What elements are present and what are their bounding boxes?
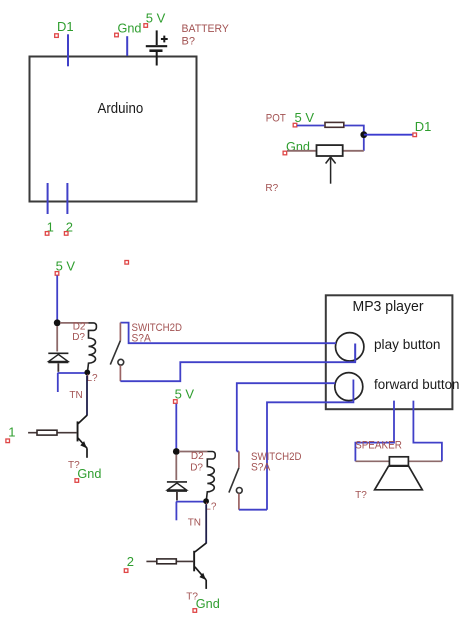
wire resistor to junction	[344, 126, 363, 135]
svg-text:TN: TN	[188, 518, 201, 529]
node 5V label (battery)	[144, 10, 166, 27]
wire 5V to resistor R?	[297, 125, 324, 127]
svg-text:Gnd: Gnd	[77, 466, 101, 481]
svg-text:TN: TN	[69, 390, 82, 401]
svg-text:5 V: 5 V	[146, 10, 166, 25]
relay coil labels D2 D? (block1)	[72, 321, 86, 343]
battery B?	[146, 30, 168, 65]
wire pot wiper branch to junction	[363, 135, 365, 151]
junction coil bottom (block1)	[84, 370, 90, 376]
svg-text:D?: D?	[190, 463, 203, 474]
play button label	[374, 337, 441, 352]
wire diode to coil bottom (block2)	[176, 492, 206, 502]
relay coil TN (block1)	[60, 323, 96, 371]
switch S?A pin bottom (block1)	[119, 365, 121, 381]
speaker wire right (MP3 out)	[413, 401, 442, 462]
switch S?A pin top (block2)	[238, 451, 240, 467]
svg-text:Gnd: Gnd	[196, 596, 220, 611]
potentiometer R? body	[317, 145, 343, 156]
wire switch1 bottom to play button pin2	[120, 344, 355, 382]
switch S?A pin bottom (block2)	[238, 494, 240, 510]
switch S?A pin top (block1)	[119, 323, 121, 341]
node Gnd label (block2)	[193, 596, 220, 612]
switch1 labels SWITCH2D S?A	[132, 322, 183, 344]
svg-text:R?: R?	[265, 183, 278, 194]
node 5V label (block2)	[174, 387, 195, 404]
forward button label	[374, 377, 460, 392]
forward button circle	[335, 373, 363, 401]
diode D? (block1 flyback)	[48, 353, 68, 362]
node 1 label (block1)	[6, 425, 16, 443]
junction node (block1 5V)	[54, 319, 61, 326]
wire stub down (block1 relay pin)	[57, 373, 59, 392]
node 5V label (pot)	[293, 110, 314, 127]
pot reference label R?	[265, 183, 278, 194]
wire switch2 bottom	[239, 509, 267, 511]
label L? (block1)	[87, 373, 99, 384]
wire junction to D1	[364, 134, 413, 136]
relay coil labels D2 D? (block2)	[190, 451, 204, 474]
transistor label T? (block1)	[68, 460, 80, 471]
svg-text:5 V: 5 V	[295, 110, 315, 125]
transistor T? (block2 NPN)	[193, 543, 206, 589]
wire junction to diode (block2)	[175, 455, 177, 480]
svg-text:Gnd: Gnd	[118, 20, 142, 35]
wire coil junction to transistor collector (block1)	[86, 376, 88, 416]
MP3 player label	[353, 298, 424, 315]
pin 2 (Arduino bottom)	[66, 183, 68, 214]
node Gnd label (block1)	[75, 466, 101, 482]
node 5V label (block1)	[55, 258, 75, 275]
wire potentiometer right to junction	[344, 150, 364, 152]
pin 1 (Arduino bottom)	[47, 183, 49, 214]
switch S?A blade (block1)	[110, 341, 120, 365]
pin Gnd (Arduino top)	[126, 36, 128, 56]
base wire from node 1 (block1)	[28, 432, 77, 434]
potentiometer wiper arrow	[326, 157, 336, 184]
SPEAKER label	[355, 440, 402, 452]
svg-text:D1: D1	[415, 119, 432, 134]
svg-text:SPEAKER: SPEAKER	[355, 440, 402, 452]
play button inner pin stub	[354, 344, 356, 363]
switch S?A contact circle (block2)	[236, 488, 242, 494]
junction (pot output node)	[360, 131, 367, 138]
wire forward pin2 to switch2 bottom	[267, 380, 353, 510]
label TN (block2)	[188, 518, 201, 529]
svg-text:D?: D?	[72, 332, 85, 343]
relay coil TN (block2)	[179, 452, 215, 500]
svg-text:2: 2	[127, 554, 134, 569]
transistor T? (block1 NPN)	[77, 415, 87, 458]
wire Gnd to potentiometer	[287, 150, 316, 152]
speaker T? body	[375, 457, 423, 490]
svg-text:Arduino: Arduino	[98, 100, 144, 117]
node D1 label (pot)	[413, 119, 432, 137]
svg-text:S?A: S?A	[132, 332, 152, 344]
wire 5V down to relay node (block1)	[56, 276, 58, 321]
switch2 top step	[237, 450, 239, 452]
switch2 labels SWITCH2D S?A	[251, 451, 302, 473]
diode D? (block2 flyback)	[167, 482, 187, 491]
label TN (block1)	[69, 390, 82, 401]
speaker label T?	[355, 490, 367, 501]
play button circle	[336, 333, 364, 361]
POT label	[266, 112, 286, 124]
speaker T? pins	[355, 460, 442, 462]
svg-text:S?A: S?A	[251, 461, 271, 473]
wire coil junction to transistor collector (block2)	[205, 504, 207, 543]
base resistor (block1)	[37, 430, 57, 435]
node 2 label (Arduino)	[64, 219, 73, 235]
node Gnd label (pot)	[283, 139, 310, 155]
svg-text:MP3 player: MP3 player	[353, 298, 424, 315]
svg-text:POT: POT	[266, 112, 286, 124]
speaker wire left (MP3 out)	[355, 401, 394, 462]
node 2 label (block2)	[124, 554, 134, 572]
junction node (block2 5V)	[173, 448, 180, 455]
MP3 player box	[326, 295, 453, 409]
label L? (block2)	[205, 502, 217, 513]
wire forward pin1 to switch2	[237, 383, 335, 451]
Arduino module box	[30, 57, 197, 202]
svg-text:D2: D2	[73, 321, 86, 332]
transistor label T? (block2)	[186, 591, 198, 602]
wire switch1 top step to play button	[120, 323, 336, 344]
svg-text:B?: B?	[182, 35, 195, 47]
switch S?A contact circle (block1)	[118, 359, 124, 365]
wire 5V down (block2)	[175, 404, 177, 449]
svg-text:T?: T?	[355, 490, 367, 501]
wire stub down (block2 relay pin)	[175, 502, 177, 521]
svg-text:play button: play button	[374, 337, 441, 352]
svg-text:BATTERY: BATTERY	[182, 23, 230, 35]
node Gnd label	[115, 20, 142, 37]
svg-text:forward button: forward button	[374, 377, 460, 392]
svg-text:1: 1	[8, 425, 15, 440]
stray pin dot (block1)	[125, 261, 129, 265]
wire junction to diode (block1)	[56, 326, 58, 352]
pin D1 (Arduino top)	[67, 34, 69, 66]
wire diode to coil bottom (block1)	[58, 363, 88, 373]
resistor R? (series)	[325, 122, 344, 127]
node 1 label (Arduino)	[45, 219, 54, 235]
base wire from node 2 (block2)	[146, 560, 193, 562]
battery value label	[182, 23, 230, 48]
switch S?A blade (block2)	[229, 468, 239, 493]
node D1 label	[55, 19, 74, 37]
junction coil bottom (block2)	[203, 498, 209, 504]
svg-text:D1: D1	[57, 19, 74, 34]
svg-text:L?: L?	[87, 373, 99, 384]
svg-text:D2: D2	[191, 451, 204, 462]
base resistor (block2)	[157, 559, 177, 564]
